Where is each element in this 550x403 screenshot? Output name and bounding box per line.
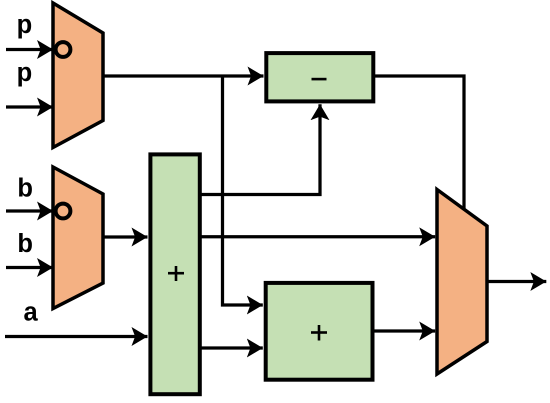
svg-text:p: p <box>17 11 33 39</box>
svg-text:b: b <box>17 230 33 258</box>
svg-text:b: b <box>17 175 33 203</box>
svg-text:a: a <box>24 299 39 327</box>
svg-text:p: p <box>17 59 33 87</box>
